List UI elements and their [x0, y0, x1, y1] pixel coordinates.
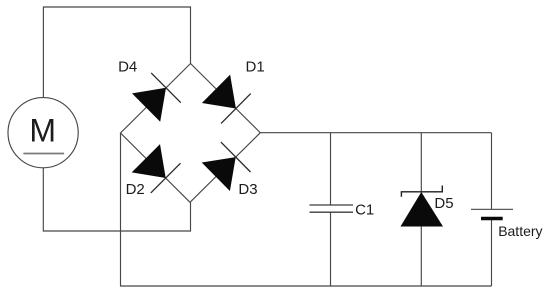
svg-text:C1: C1 — [355, 202, 374, 219]
svg-text:D1: D1 — [246, 59, 265, 76]
svg-text:D5: D5 — [434, 195, 453, 212]
svg-text:D2: D2 — [126, 181, 145, 198]
svg-text:Battery: Battery — [498, 223, 542, 239]
svg-text:D4: D4 — [118, 59, 137, 76]
svg-text:D3: D3 — [238, 181, 257, 198]
svg-text:M: M — [29, 112, 56, 148]
